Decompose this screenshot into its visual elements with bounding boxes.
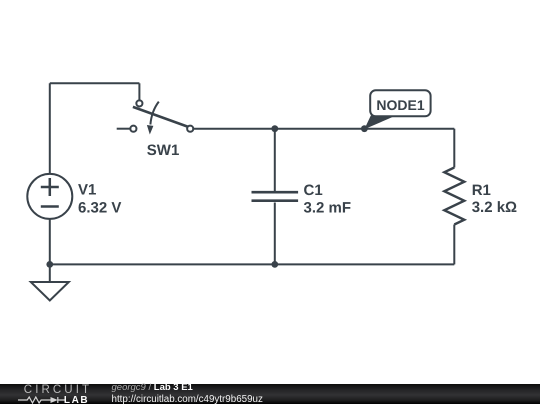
wire switch drop bbox=[138, 83, 140, 99]
junction dot C1 bottom bbox=[271, 261, 278, 268]
wire R1 top vertical bbox=[453, 129, 455, 168]
switch SW1 actuator arc bbox=[150, 102, 158, 125]
svg-text:SW1: SW1 bbox=[147, 142, 180, 159]
footer line 1: user / title bbox=[112, 382, 193, 393]
footer bar bbox=[0, 384, 540, 404]
switch SW1 left terminal bbox=[130, 126, 136, 132]
svg-text:V1: V1 bbox=[78, 182, 96, 199]
CircuitLab logo squiggle (resistor + diode) bbox=[18, 396, 65, 404]
wire C1 bottom vertical bbox=[274, 203, 276, 265]
footer line 2: url bbox=[112, 394, 263, 405]
wire R1 bottom vertical bbox=[453, 225, 455, 265]
wire C1 top vertical bbox=[274, 129, 276, 191]
CircuitLab logo word LAB bbox=[64, 395, 89, 405]
svg-text:R1: R1 bbox=[472, 182, 491, 199]
junction dot NODE1 bbox=[361, 125, 368, 132]
CircuitLab logo word CIRCUIT bbox=[24, 385, 92, 396]
wire top horizontal bbox=[50, 82, 140, 84]
switch SW1 top terminal bbox=[136, 100, 142, 106]
node NODE1 callout tail bbox=[364, 116, 396, 130]
capacitor C1 bbox=[252, 192, 299, 201]
wire top-left vertical (V1 top to corner) bbox=[49, 83, 51, 174]
svg-text:3.2 mF: 3.2 mF bbox=[304, 200, 352, 217]
wire bottom horizontal bbox=[50, 263, 455, 265]
node NODE1 callout box bbox=[370, 90, 430, 116]
switch SW1 blade bbox=[133, 107, 189, 127]
switch SW1 bbox=[117, 100, 194, 134]
svg-text:6.32 V: 6.32 V bbox=[78, 200, 121, 217]
junction dot at C1 top bbox=[271, 125, 278, 132]
wire V1 bottom vertical bbox=[49, 219, 51, 265]
junction dot ground bbox=[46, 261, 53, 268]
voltage source V1 bbox=[27, 174, 72, 219]
svg-text:C1: C1 bbox=[304, 182, 323, 199]
switch SW1 right terminal bbox=[187, 126, 193, 132]
switch SW1 actuator arrowhead bbox=[147, 125, 154, 135]
ground symbol bbox=[31, 282, 69, 301]
switch SW1 left stub wire bbox=[117, 128, 130, 130]
wire ground stub bbox=[49, 264, 51, 282]
svg-text:3.2 kΩ: 3.2 kΩ bbox=[472, 199, 517, 216]
wire main horizontal (switch to R1 corner) bbox=[194, 128, 454, 130]
resistor R1 bbox=[444, 168, 464, 225]
svg-text:NODE1: NODE1 bbox=[376, 97, 424, 113]
